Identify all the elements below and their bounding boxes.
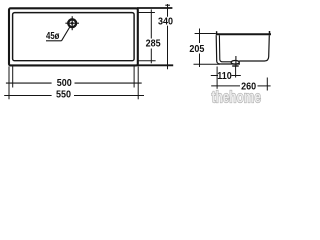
svg-text:110: 110 (217, 70, 232, 82)
svg-text:285: 285 (146, 38, 162, 50)
svg-text:550: 550 (56, 89, 71, 101)
svg-text:45ø: 45ø (46, 30, 60, 41)
svg-text:500: 500 (57, 77, 72, 89)
svg-text:340: 340 (158, 16, 173, 28)
svg-text:260: 260 (241, 81, 256, 93)
svg-text:205: 205 (189, 44, 205, 56)
